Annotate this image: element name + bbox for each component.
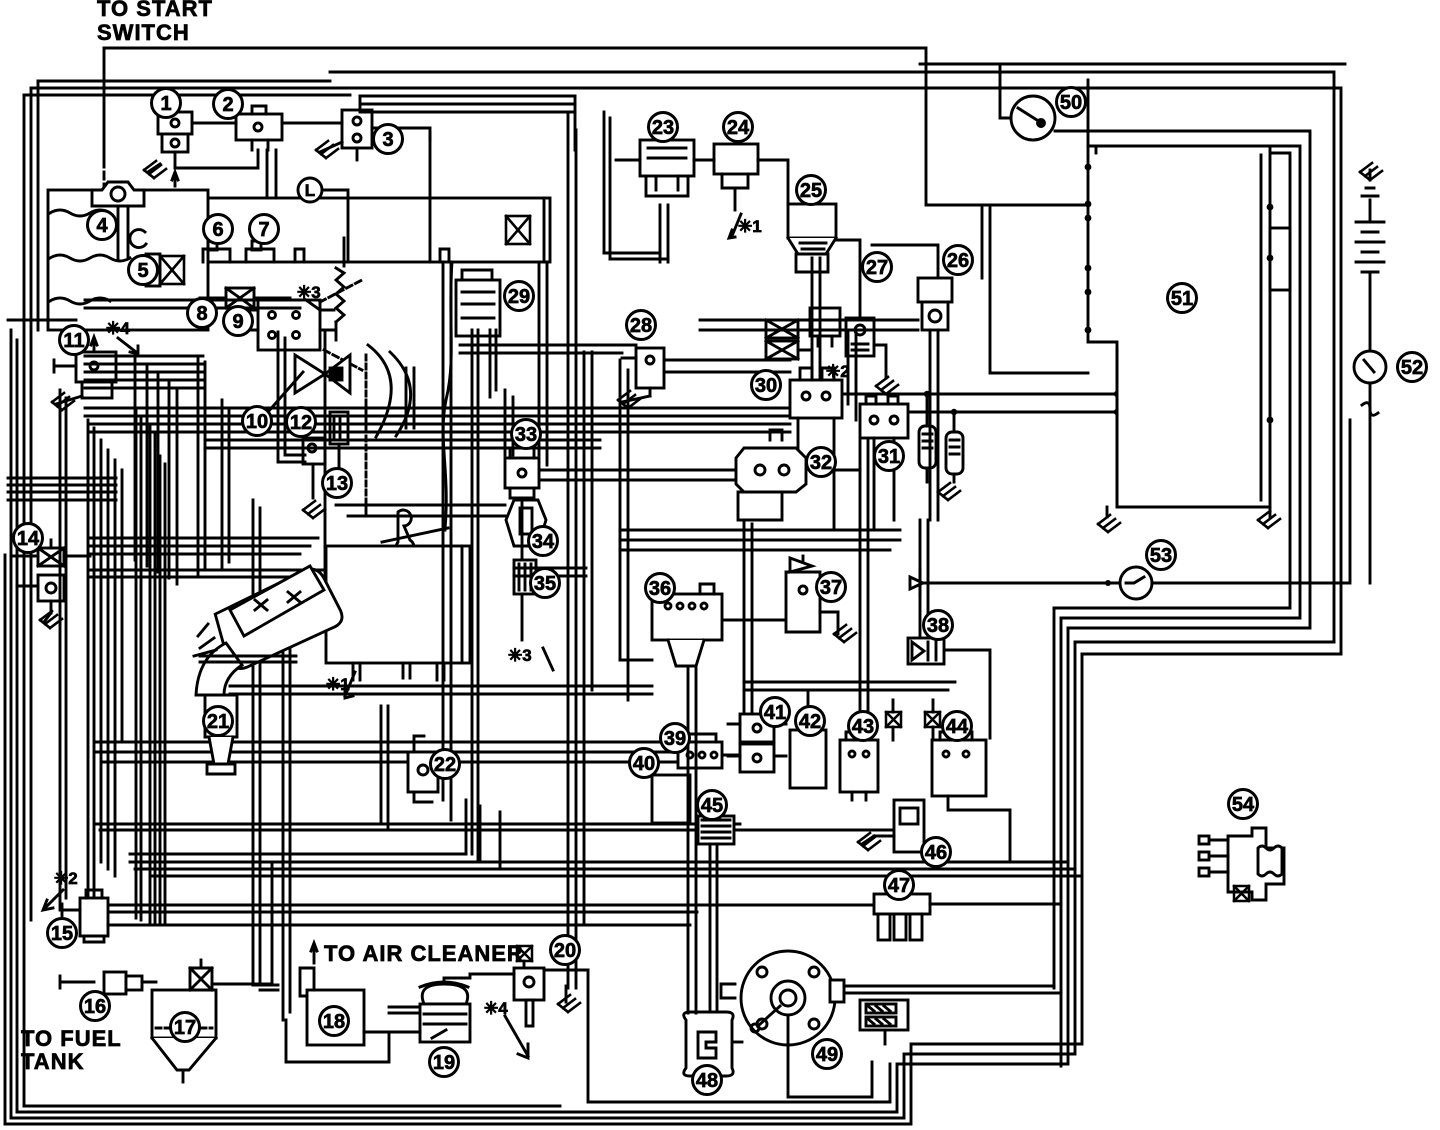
component 23 (640, 140, 694, 196)
callout 40 (630, 749, 659, 778)
svg-text:40: 40 (633, 753, 655, 775)
component 35 (514, 560, 536, 594)
text TO AIR CLEANER (324, 941, 524, 966)
callout 33 (512, 420, 541, 449)
component 28 (622, 348, 664, 396)
svg-text:2: 2 (222, 94, 233, 116)
component 42 (790, 730, 826, 788)
component 46 (874, 800, 924, 852)
svg-text:SWITCH: SWITCH (97, 20, 190, 45)
callout 7 (250, 215, 279, 244)
svg-text:✳3: ✳3 (508, 646, 532, 665)
component 16 plug (104, 972, 156, 994)
callout 5 (129, 256, 158, 285)
component 24 (714, 144, 758, 238)
ground right of 27 bottle (876, 377, 898, 394)
connector 54 (1199, 828, 1284, 901)
asterisk labels (54, 217, 850, 1018)
callout 14 (14, 524, 43, 553)
svg-text:8: 8 (196, 303, 207, 325)
svg-text:9: 9 (232, 311, 243, 333)
component 30 (790, 368, 842, 530)
svg-text:1: 1 (160, 93, 171, 115)
switch 53 (910, 420, 1350, 599)
component 40 tank (652, 775, 690, 823)
callout 26 (944, 246, 973, 275)
fuel tank lead (60, 976, 94, 988)
component 14 stack (11, 540, 90, 613)
shackle pivot (382, 510, 448, 557)
wires at 51 top (1088, 80, 1096, 153)
svg-text:27: 27 (866, 257, 888, 279)
svg-text:42: 42 (799, 711, 821, 733)
svg-text:37: 37 (820, 577, 842, 599)
callout 49 (813, 1040, 842, 1069)
callout 53 (1147, 541, 1176, 570)
wires right-mid (514, 112, 990, 830)
svg-text:32: 32 (810, 452, 832, 474)
callout 35 (531, 569, 560, 598)
leader x4 (505, 1016, 528, 1058)
callout 31 (875, 442, 904, 471)
component 22 canister (408, 736, 438, 802)
callout 25 (797, 176, 826, 205)
callout 16 (81, 992, 110, 1021)
svg-text:5: 5 (137, 260, 148, 282)
battery (1356, 163, 1384, 351)
svg-text:46: 46 (925, 842, 947, 864)
component 25 hopper (788, 204, 836, 272)
callout 10 (243, 407, 272, 436)
svg-text:✳3: ✳3 (297, 283, 321, 302)
ground left of 3 (316, 141, 342, 158)
component 27 bottle (836, 240, 886, 378)
svg-text:21: 21 (207, 711, 229, 733)
callout 2 (214, 90, 243, 119)
node L (298, 178, 348, 262)
wire outer border left (5, 88, 31, 1124)
svg-text:45: 45 (701, 795, 723, 817)
svg-text:28: 28 (630, 315, 652, 337)
callout 32 (807, 448, 836, 477)
float valve 4 (92, 172, 178, 248)
svg-text:15: 15 (51, 923, 73, 945)
svg-text:30: 30 (755, 375, 777, 397)
svg-text:18: 18 (323, 1011, 345, 1033)
svg-text:✳4: ✳4 (484, 999, 508, 1018)
callout 43 (849, 712, 878, 741)
wires center vertical bundle (443, 115, 890, 1102)
component 34 pentagon (506, 500, 546, 546)
junction dots fuse lines (924, 391, 1120, 415)
svg-text:L: L (305, 181, 315, 200)
ground right of 20 (558, 986, 580, 1012)
wires left-center bundles (8, 300, 797, 448)
component 3 valve (342, 110, 372, 148)
fuel funnel 17 (152, 960, 272, 1082)
svg-text:25: 25 (800, 180, 822, 202)
svg-text:41: 41 (764, 702, 786, 724)
svg-text:3: 3 (382, 129, 393, 151)
callout 41 (761, 698, 790, 727)
component 11 valve (54, 337, 116, 398)
svg-text:53: 53 (1150, 545, 1172, 567)
svg-text:11: 11 (63, 330, 84, 352)
component 31 (812, 396, 908, 530)
component 33 (505, 448, 539, 498)
callout 21 (204, 707, 233, 736)
wires lower-left horizontals (85, 686, 1082, 925)
callout 3 (374, 125, 403, 154)
callout 50 (1057, 88, 1086, 117)
component 43 (840, 732, 878, 800)
callout 30 (752, 371, 781, 400)
ground right of 37 (834, 612, 856, 642)
svg-text:54: 54 (1232, 794, 1255, 816)
ground below fuses (938, 483, 960, 500)
component 12 (303, 438, 325, 498)
component 29 valve (456, 270, 500, 336)
svg-text:12: 12 (290, 412, 312, 434)
svg-text:44: 44 (946, 716, 969, 738)
wire border top (24, 72, 1341, 654)
ground under 28 (618, 391, 650, 408)
svg-text:24: 24 (727, 117, 750, 139)
component 41 (728, 714, 786, 772)
callout 15 (48, 919, 77, 948)
ground under 11 (52, 393, 82, 410)
component 44 (932, 732, 1010, 862)
component 20 valve (470, 946, 588, 1026)
svg-text:36: 36 (649, 578, 671, 600)
components 6 7 rail studs (203, 241, 274, 262)
component 47 fuse box (874, 894, 1061, 940)
svg-text:51: 51 (1171, 288, 1193, 310)
callout 4 (88, 211, 117, 240)
component 13 (330, 412, 348, 470)
gauge 50 (920, 64, 1345, 140)
component 2 valve (236, 106, 282, 150)
arrow up air cleaner (311, 943, 317, 963)
callout 39 (661, 724, 690, 753)
component 1 solenoid valve (158, 112, 192, 168)
callout 12 (287, 408, 316, 437)
xboxes above 43 44 (886, 700, 940, 740)
lever linkage 10 (368, 345, 414, 437)
relay box near 27 (810, 308, 840, 346)
callout 51 (1168, 284, 1197, 313)
callout 1 (152, 89, 181, 118)
svg-text:23: 23 (652, 117, 674, 139)
callout 38 (924, 611, 953, 640)
component 15 (62, 890, 130, 942)
wire left verticals (60, 390, 290, 1020)
ground left of 46 (858, 833, 880, 850)
callout 27 (863, 253, 892, 282)
svg-text:26: 26 (947, 250, 969, 272)
callout 24 (724, 113, 753, 142)
component 8 (200, 288, 290, 308)
gauge 52 (1354, 351, 1386, 583)
svg-text:20: 20 (554, 940, 576, 962)
ground under 14 (40, 611, 62, 628)
callout 22 (431, 750, 460, 779)
svg-text:33: 33 (515, 424, 537, 446)
ground right bottom of 51 (1258, 507, 1280, 528)
svg-text:34: 34 (532, 531, 555, 553)
regulator right of 49 (860, 1000, 908, 1044)
ground under 1 (144, 161, 166, 178)
svg-text:38: 38 (927, 615, 949, 637)
wire nested corners center-left (8, 330, 366, 620)
wire to start switch (104, 48, 1085, 205)
callout 46 (922, 838, 951, 867)
callout 47 (885, 871, 914, 900)
svg-text:52: 52 (1401, 357, 1423, 379)
component 37 (786, 558, 838, 632)
main rail bar (150, 198, 550, 262)
alternator 49 (721, 951, 1061, 1097)
svg-text:TO START: TO START (97, 0, 213, 21)
spring near 9 (336, 238, 344, 340)
callout 6 (204, 215, 233, 244)
svg-text:13: 13 (326, 473, 348, 495)
svg-text:19: 19 (433, 1052, 455, 1074)
engine intake assembly (194, 564, 344, 774)
callout 54 (1229, 790, 1258, 819)
tank with float (48, 190, 208, 330)
nodes on 51 (1085, 164, 1274, 424)
svg-text:35: 35 (534, 573, 556, 595)
svg-text:31: 31 (878, 446, 900, 468)
callout 52 (1398, 353, 1427, 382)
svg-text:49: 49 (816, 1044, 838, 1066)
ground under 51 (1098, 515, 1120, 532)
callout 18 (320, 1007, 349, 1036)
ground under 12 (303, 501, 325, 518)
svg-text:✳4: ✳4 (106, 319, 130, 338)
wires components 1-3 (175, 96, 575, 262)
svg-text:50: 50 (1060, 92, 1082, 114)
svg-text:39: 39 (664, 728, 686, 750)
svg-text:TO AIR CLEANER: TO AIR CLEANER (324, 941, 524, 966)
callout 34 (529, 527, 558, 556)
text TO START SWITCH (97, 0, 213, 45)
callout 48 (693, 1066, 722, 1095)
xbox pair left of 30 (766, 320, 812, 359)
svg-text:43: 43 (852, 716, 874, 738)
callout 11 (60, 326, 89, 355)
wires center horizontals (336, 345, 900, 550)
callout 36 (646, 574, 675, 603)
svg-text:✳2: ✳2 (54, 869, 78, 888)
svg-text:29: 29 (508, 286, 530, 308)
svg-text:17: 17 (174, 1017, 196, 1039)
component 48 starter switch (684, 666, 733, 1076)
svg-text:48: 48 (696, 1070, 718, 1092)
callout 8 (188, 299, 217, 328)
callout 19 (430, 1048, 459, 1077)
component 36 valve w funnel (652, 584, 722, 666)
callout 23 (649, 113, 678, 142)
component 45 (698, 816, 734, 1013)
component 9 valve block (246, 280, 362, 370)
fuse cylinders below 26 (839, 205, 1117, 482)
svg-text:16: 16 (84, 996, 106, 1018)
svg-text:6: 6 (212, 219, 223, 241)
svg-text:✳1: ✳1 (738, 217, 762, 236)
svg-text:TO FUEL: TO FUEL (21, 1026, 122, 1051)
callout 13 (323, 469, 352, 498)
component 39 (678, 734, 722, 768)
leader lines for asterisks (43, 300, 553, 910)
wire border bottom (5, 628, 1082, 1124)
component 38 (908, 638, 944, 664)
svg-text:10: 10 (246, 411, 268, 433)
svg-text:7: 7 (258, 219, 269, 241)
callout 37 (817, 573, 846, 602)
lever bowtie near 10 (268, 355, 350, 412)
callout 45 (698, 791, 727, 820)
component 26 (918, 278, 952, 330)
callout 28 (627, 311, 656, 340)
air cleaner 18 (286, 968, 389, 1062)
callout 17 (171, 1013, 200, 1042)
callout 29 (505, 282, 534, 311)
callout 42 (796, 707, 825, 736)
callout 44 (943, 712, 972, 741)
svg-text:22: 22 (434, 754, 456, 776)
component 32 steering unit (736, 430, 806, 520)
callout 20 (551, 936, 580, 965)
box 51 (1088, 146, 1290, 517)
wire right stair to border (1054, 131, 1341, 1066)
component 19 air filter (364, 974, 470, 1042)
svg-text:4: 4 (96, 215, 108, 237)
callout 9 (224, 307, 253, 336)
engine big rect (326, 546, 470, 680)
component 5 xbox (146, 254, 184, 286)
svg-text:TANK: TANK (21, 1049, 84, 1074)
svg-text:47: 47 (888, 875, 910, 897)
svg-text:✳2: ✳2 (826, 362, 850, 381)
svg-text:14: 14 (17, 528, 40, 550)
text TO FUEL TANK (21, 1026, 122, 1074)
